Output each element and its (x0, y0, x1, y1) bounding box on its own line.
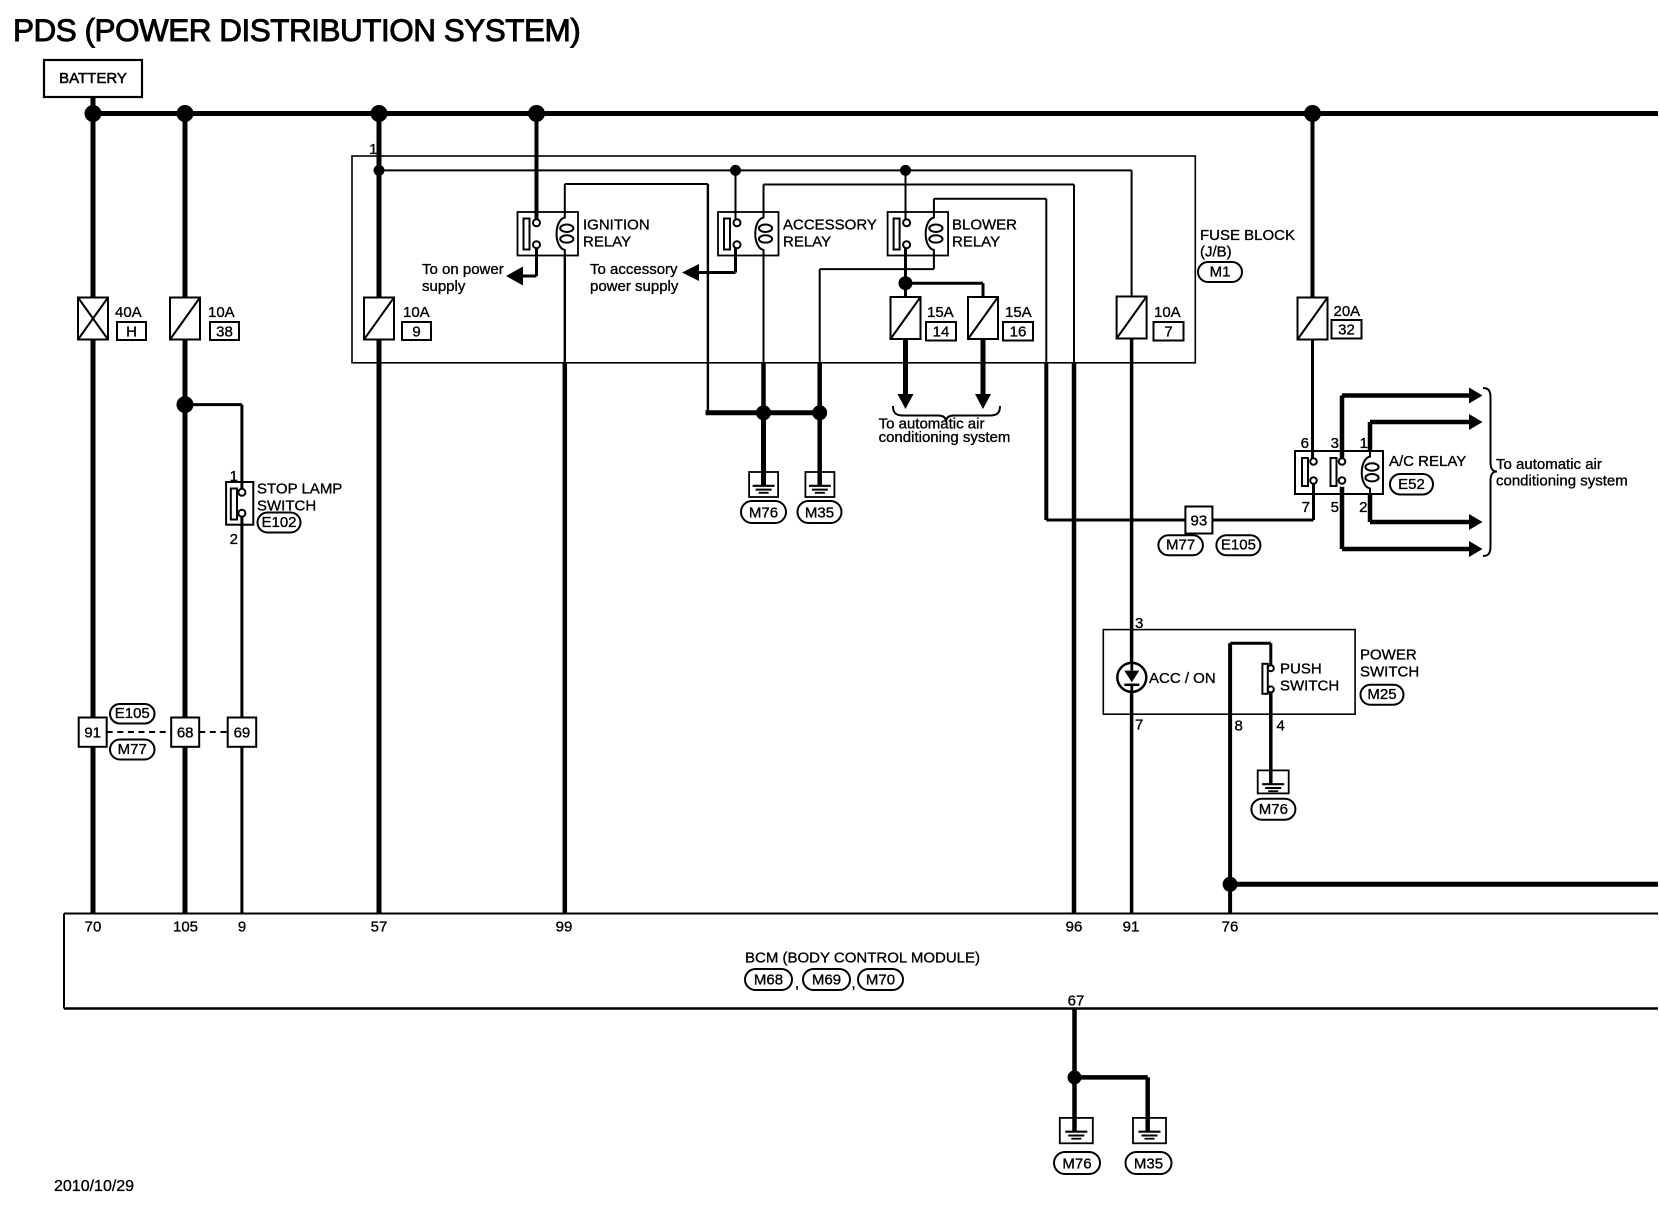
wire node 1 to fuse 7 (1131, 170, 1133, 296)
dashed connector link 91-68-69 (107, 731, 228, 733)
svg-text:SWITCH: SWITCH (1280, 678, 1339, 695)
svg-text:BATTERY: BATTERY (59, 70, 127, 87)
fuse block (J/B) M1 outline (352, 141, 1295, 363)
wire fuse 32 to A/C relay pin 6 (1311, 340, 1314, 459)
svg-text:H: H (126, 323, 137, 340)
svg-text:,: , (795, 975, 799, 992)
connector E102 oval (258, 513, 301, 533)
junction dots on fuse block node (374, 165, 912, 176)
connector 69 box (228, 718, 257, 747)
connector M35 oval BCM (1126, 1152, 1172, 1174)
wire to ignition relay contact (535, 114, 539, 220)
to accessory power supply label (590, 261, 679, 295)
fuse id 9 (402, 322, 431, 340)
connector M77 oval (110, 740, 155, 760)
svg-text:ACCESSORY: ACCESSORY (783, 217, 877, 234)
wire power switch pin 4 to ground M76 (1269, 692, 1273, 784)
svg-text:16: 16 (1010, 324, 1027, 341)
wire stop lamp switch branch (185, 405, 242, 489)
fuse id 16 (1003, 322, 1033, 341)
svg-text:E105: E105 (115, 705, 150, 722)
connector E52 oval (1390, 474, 1433, 495)
connector M76 oval BCM (1054, 1152, 1100, 1174)
svg-text:4: 4 (1277, 718, 1285, 735)
indicator ACC/ON (1117, 663, 1215, 692)
wire accessory coil to ground jog (763, 256, 765, 413)
svg-text:M68: M68 (754, 972, 783, 989)
svg-text:IGNITION: IGNITION (583, 217, 650, 234)
svg-text:M76: M76 (1062, 1156, 1091, 1173)
brace to automatic air conditioning system (893, 406, 1000, 422)
svg-text:20A: 20A (1334, 303, 1361, 320)
wire bus to fuse 32 (1311, 114, 1315, 298)
svg-text:M25: M25 (1367, 686, 1396, 703)
svg-text:SWITCH: SWITCH (1360, 664, 1419, 681)
wire accessory relay contact to accessory-power arrow (682, 248, 736, 281)
blower relay (888, 212, 1018, 256)
svg-text:BCM (BODY CONTROL MODULE): BCM (BODY CONTROL MODULE) (745, 950, 980, 967)
fuse block feed wire node 1 (379, 169, 1132, 171)
svg-text:1: 1 (230, 468, 238, 485)
svg-text:,: , (852, 975, 856, 992)
svg-text:M76: M76 (749, 505, 778, 522)
svg-text:8: 8 (1235, 718, 1243, 735)
connector 93 box (1185, 507, 1212, 534)
svg-text:5: 5 (1331, 499, 1339, 516)
svg-text:93: 93 (1191, 512, 1208, 529)
wire A/C relay pin 1 arrow (1370, 414, 1483, 451)
ground M35 relay (805, 472, 834, 497)
svg-text:2: 2 (1359, 499, 1367, 516)
junction dots on bus (85, 105, 1322, 122)
svg-text:7: 7 (1164, 324, 1172, 341)
svg-text:10A: 10A (208, 304, 235, 321)
svg-text:FUSE BLOCK: FUSE BLOCK (1200, 227, 1295, 244)
wire fuse 7 to power switch to BCM pin 91 (1130, 340, 1134, 914)
BCM (BODY CONTROL MODULE) outline (64, 914, 1658, 1009)
connector M76 oval relay ground (741, 501, 786, 523)
svg-text:69: 69 (234, 724, 251, 741)
svg-text:1: 1 (369, 141, 377, 158)
svg-text:3: 3 (1135, 615, 1143, 632)
svg-text:PDS (POWER DISTRIBUTION SYSTEM: PDS (POWER DISTRIBUTION SYSTEM) (13, 12, 580, 48)
A/C relay pin numbers (1301, 435, 1368, 516)
fuse id H (117, 322, 146, 340)
svg-text:To accessory: To accessory (590, 261, 678, 278)
svg-text:14: 14 (933, 324, 950, 341)
connector M70 oval (852, 969, 904, 992)
ground M76 relay (749, 472, 778, 497)
wire blower relay contact from node (905, 170, 907, 219)
svg-text:M70: M70 (866, 972, 895, 989)
junction dot BCM pin 76 wire (1223, 877, 1238, 892)
wire battery to BCM pin 70 (91, 97, 96, 914)
svg-text:A/C RELAY: A/C RELAY (1389, 453, 1466, 470)
svg-text:91: 91 (84, 724, 101, 741)
wire power switch pin 8 to BCM pin 76 (1230, 643, 1271, 913)
accessory relay (718, 212, 877, 256)
wire fuse 16 to air conditioning arrow (975, 340, 991, 410)
connector M25 oval (1361, 685, 1404, 705)
svg-text:M77: M77 (1166, 537, 1195, 554)
ground jog wire (706, 410, 820, 415)
svg-text:M35: M35 (805, 505, 834, 522)
svg-text:E105: E105 (1221, 537, 1256, 554)
svg-text:conditioning system: conditioning system (1496, 473, 1628, 490)
svg-text:57: 57 (371, 919, 388, 936)
battery bus wire (91, 111, 1659, 116)
svg-text:M77: M77 (118, 741, 147, 758)
fuse id 32 (1332, 320, 1362, 339)
svg-text:E102: E102 (261, 514, 296, 531)
fusible link 40A H (78, 298, 108, 340)
wire ignition coil to ground jog (565, 184, 708, 413)
svg-text:32: 32 (1338, 322, 1355, 339)
svg-text:RELAY: RELAY (952, 234, 1000, 251)
wire blower relay contact to fuses 14 and 16 (906, 248, 984, 297)
svg-text:76: 76 (1222, 919, 1239, 936)
svg-text:38: 38 (216, 323, 233, 340)
wire ground jog to ground M76 (761, 413, 766, 486)
svg-text:9: 9 (238, 919, 246, 936)
fuse id 7 (1154, 322, 1184, 341)
wire ignition coil to BCM pin 99 (564, 256, 566, 914)
svg-text:15A: 15A (927, 304, 954, 321)
connector 91 box (79, 718, 107, 747)
push switch (1262, 661, 1339, 695)
wire ignition relay contact to on-power arrow (506, 248, 537, 285)
connector M77 oval 93 (1158, 535, 1203, 555)
svg-text:ACC / ON: ACC / ON (1149, 670, 1216, 687)
svg-text:conditioning system: conditioning system (879, 429, 1011, 446)
wire fuse 14 to air conditioning arrow (898, 340, 914, 410)
junction dot stop lamp branch (177, 396, 194, 413)
svg-text:99: 99 (556, 919, 573, 936)
svg-text:RELAY: RELAY (583, 234, 631, 251)
brace to automatic air conditioning system right (1483, 388, 1497, 556)
svg-text:1: 1 (1360, 435, 1368, 452)
fuse 10A 9 (364, 298, 394, 340)
A/C relay E52 (1295, 451, 1466, 494)
svg-text:STOP LAMP: STOP LAMP (257, 481, 342, 498)
svg-text:68: 68 (177, 724, 194, 741)
svg-text:3: 3 (1331, 435, 1339, 452)
connector M35 oval relay ground (798, 501, 842, 523)
svg-text:10A: 10A (1154, 304, 1181, 321)
wire A/C relay pin 3 arrow (1342, 388, 1483, 458)
wire blower coil to A/C relay pin 7 via connector 93 (934, 199, 1314, 520)
wire A/C relay pin 5 arrow (1342, 487, 1483, 557)
connector M76 oval power switch (1251, 799, 1295, 820)
fuse 10A 38 (170, 298, 200, 340)
to on power supply label (422, 261, 504, 295)
connector 68 box (171, 718, 199, 747)
wire accessory coil to BCM pin 96 (764, 185, 1075, 914)
svg-text:M69: M69 (812, 972, 841, 989)
svg-text:BLOWER: BLOWER (952, 217, 1017, 234)
svg-text:POWER: POWER (1360, 647, 1417, 664)
fuse 10A 7 (1117, 297, 1147, 339)
battery B1 (44, 60, 142, 97)
svg-text:70: 70 (85, 919, 102, 936)
svg-text:7: 7 (1135, 717, 1143, 734)
ground M76 BCM (1060, 1118, 1093, 1143)
svg-text:To automatic air: To automatic air (1496, 456, 1602, 473)
wire accessory relay contact from node (735, 170, 737, 219)
wire bus to BCM pin 105 (183, 114, 188, 914)
wire ground jog to ground M35 (817, 413, 822, 486)
power switch M25 outline (1103, 630, 1419, 715)
svg-text:91: 91 (1123, 919, 1140, 936)
wire fuse 9 to BCM pin 57 (377, 340, 382, 914)
svg-text:40A: 40A (115, 304, 142, 321)
fuse id 38 (210, 322, 239, 340)
wire blower coil to ground jog (820, 256, 934, 413)
svg-text:E52: E52 (1398, 476, 1425, 493)
svg-text:PUSH: PUSH (1280, 661, 1322, 678)
wire stop lamp switch to BCM pin 9 (240, 517, 243, 914)
svg-text:M76: M76 (1259, 801, 1288, 818)
connector E105 oval 93 (1216, 535, 1260, 555)
svg-text:6: 6 (1301, 435, 1309, 452)
wire A/C relay pin 2 arrow (1370, 494, 1483, 530)
junction dots ground jog (756, 405, 827, 420)
svg-text:M35: M35 (1134, 1156, 1163, 1173)
fuse 20A 32 (1298, 298, 1328, 340)
connector E105 oval (110, 704, 155, 724)
junction dot blower contact (899, 276, 913, 290)
svg-text:supply: supply (422, 278, 466, 295)
svg-text:(J/B): (J/B) (1200, 244, 1232, 261)
svg-text:7: 7 (1302, 499, 1310, 516)
connector M68 oval (745, 969, 792, 990)
svg-text:67: 67 (1068, 993, 1085, 1010)
connector M69 oval (795, 969, 850, 992)
svg-text:2010/10/29: 2010/10/29 (54, 1178, 134, 1195)
stop lamp switch E102 (226, 468, 342, 548)
svg-text:power supply: power supply (590, 278, 679, 295)
svg-text:To on power: To on power (422, 261, 504, 278)
svg-text:105: 105 (173, 919, 198, 936)
svg-text:2: 2 (230, 531, 238, 548)
ground M76 power switch (1258, 770, 1289, 793)
power switch pin numbers (1135, 615, 1285, 735)
connector M1 oval (1198, 262, 1242, 282)
wire to right page edge (1230, 882, 1658, 887)
ignition relay (518, 212, 650, 256)
svg-text:10A: 10A (403, 304, 430, 321)
svg-text:9: 9 (412, 323, 420, 340)
svg-text:RELAY: RELAY (783, 234, 831, 251)
svg-text:15A: 15A (1005, 304, 1032, 321)
title (13, 12, 580, 48)
wire bus to fuse 9 (377, 114, 382, 298)
junction dot BCM pin 67 wire (1068, 1070, 1082, 1084)
wire BCM pin 67 to grounds (1075, 1009, 1148, 1132)
fuse 15A 16 (968, 297, 998, 339)
fuse 15A 14 (891, 297, 921, 339)
svg-text:96: 96 (1066, 919, 1083, 936)
svg-text:M1: M1 (1210, 264, 1231, 281)
fuse id 14 (926, 322, 956, 341)
BCM pin labels (85, 919, 1239, 936)
ground M35 BCM (1133, 1118, 1166, 1143)
